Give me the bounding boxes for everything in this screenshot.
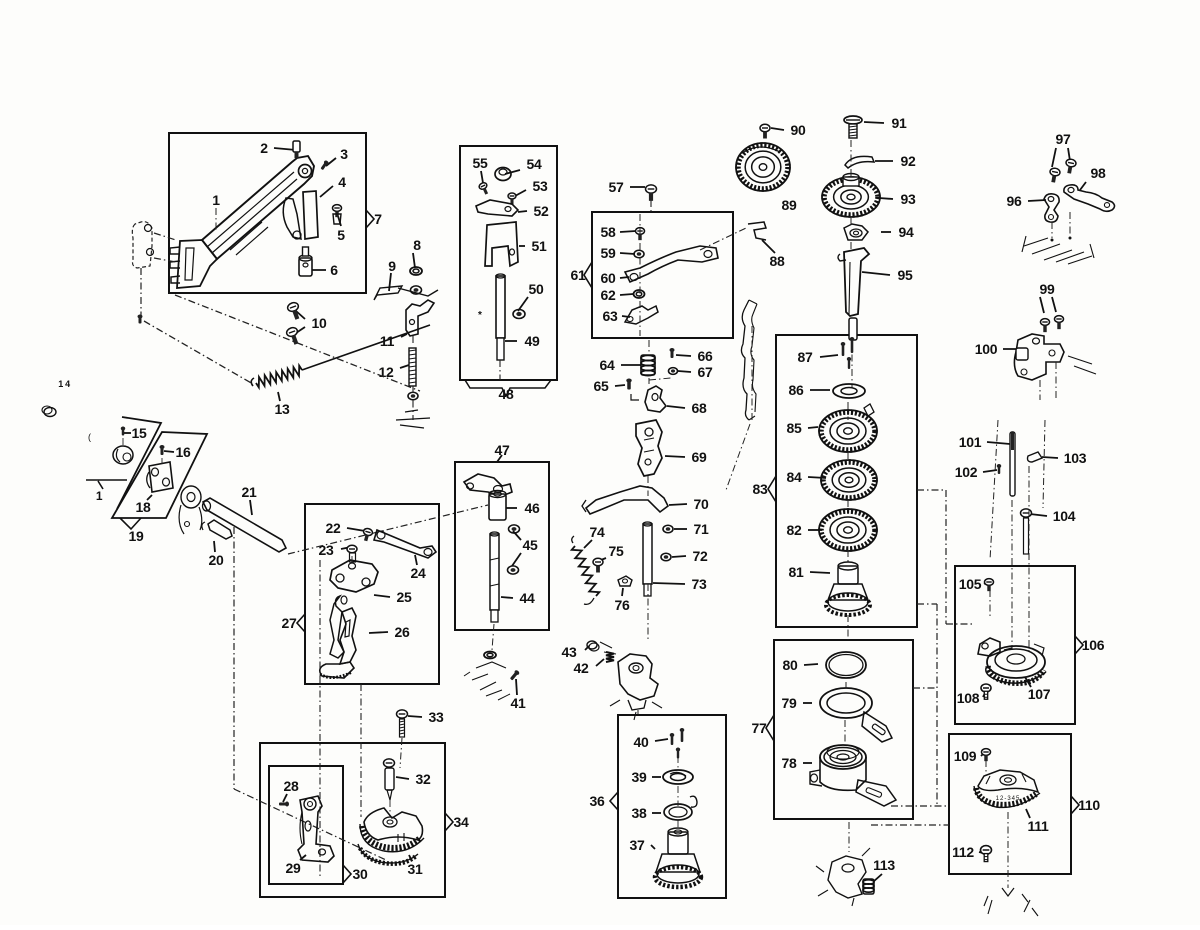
svg-text:4: 4 bbox=[338, 174, 346, 190]
svg-text:74: 74 bbox=[590, 524, 605, 540]
svg-text:*: * bbox=[478, 310, 482, 321]
svg-text:12-345: 12-345 bbox=[996, 796, 1021, 802]
svg-text:9: 9 bbox=[388, 258, 396, 274]
svg-text:94: 94 bbox=[899, 224, 914, 240]
svg-text:34: 34 bbox=[454, 814, 469, 830]
svg-text:105: 105 bbox=[959, 576, 982, 592]
svg-text:54: 54 bbox=[527, 156, 542, 172]
svg-text:60: 60 bbox=[601, 270, 616, 286]
svg-text:84: 84 bbox=[787, 469, 802, 485]
svg-text:86: 86 bbox=[789, 382, 804, 398]
svg-text:32: 32 bbox=[416, 771, 431, 787]
svg-text:77: 77 bbox=[752, 720, 767, 736]
svg-text:89: 89 bbox=[782, 197, 797, 213]
svg-text:51: 51 bbox=[532, 238, 547, 254]
svg-text:82: 82 bbox=[787, 522, 802, 538]
svg-text:59: 59 bbox=[601, 245, 616, 261]
svg-text:112: 112 bbox=[952, 844, 974, 860]
svg-text:50: 50 bbox=[529, 281, 544, 297]
svg-text:96: 96 bbox=[1007, 193, 1022, 209]
svg-text:43: 43 bbox=[562, 644, 577, 660]
svg-text:57: 57 bbox=[609, 179, 624, 195]
svg-text:44: 44 bbox=[520, 590, 535, 606]
svg-text:87: 87 bbox=[798, 349, 813, 365]
svg-text:(: ( bbox=[88, 432, 91, 442]
svg-text:75: 75 bbox=[609, 543, 624, 559]
svg-text:91: 91 bbox=[892, 115, 907, 131]
svg-text:10: 10 bbox=[312, 315, 327, 331]
svg-text:15: 15 bbox=[132, 425, 147, 441]
svg-text:95: 95 bbox=[898, 267, 913, 283]
svg-text:33: 33 bbox=[429, 709, 444, 725]
svg-text:11: 11 bbox=[380, 333, 395, 349]
svg-text:63: 63 bbox=[603, 308, 618, 324]
svg-text:1 4: 1 4 bbox=[58, 379, 70, 389]
svg-text:67: 67 bbox=[698, 364, 713, 380]
svg-text:104: 104 bbox=[1053, 508, 1076, 524]
svg-text:29: 29 bbox=[286, 860, 301, 876]
svg-text:69: 69 bbox=[692, 449, 707, 465]
svg-text:31: 31 bbox=[408, 861, 423, 877]
svg-text:62: 62 bbox=[601, 287, 616, 303]
svg-text:46: 46 bbox=[525, 500, 540, 516]
svg-text:37: 37 bbox=[630, 837, 645, 853]
svg-text:101: 101 bbox=[959, 434, 982, 450]
svg-text:8: 8 bbox=[413, 237, 421, 253]
svg-text:58: 58 bbox=[601, 224, 616, 240]
svg-text:79: 79 bbox=[782, 695, 797, 711]
svg-text:66: 66 bbox=[698, 348, 713, 364]
svg-text:78: 78 bbox=[782, 755, 797, 771]
svg-text:72: 72 bbox=[693, 548, 708, 564]
svg-text:16: 16 bbox=[176, 444, 191, 460]
svg-text:71: 71 bbox=[694, 521, 709, 537]
svg-text:18: 18 bbox=[136, 499, 151, 515]
svg-text:1: 1 bbox=[96, 489, 103, 503]
svg-text:109: 109 bbox=[954, 748, 977, 764]
svg-text:42: 42 bbox=[574, 660, 589, 676]
svg-text:108: 108 bbox=[957, 690, 980, 706]
svg-text:5: 5 bbox=[337, 227, 345, 243]
svg-text:3: 3 bbox=[340, 146, 348, 162]
svg-text:49: 49 bbox=[525, 333, 540, 349]
svg-text:12: 12 bbox=[379, 364, 394, 380]
svg-text:27: 27 bbox=[282, 615, 297, 631]
svg-text:100: 100 bbox=[975, 341, 998, 357]
svg-text:7: 7 bbox=[374, 211, 382, 227]
svg-text:20: 20 bbox=[209, 552, 224, 568]
svg-text:25: 25 bbox=[397, 589, 412, 605]
svg-text:2: 2 bbox=[260, 140, 268, 156]
svg-text:102: 102 bbox=[955, 464, 978, 480]
svg-text:73: 73 bbox=[692, 576, 707, 592]
svg-text:13: 13 bbox=[275, 401, 290, 417]
svg-text:98: 98 bbox=[1091, 165, 1106, 181]
svg-text:81: 81 bbox=[789, 564, 804, 580]
svg-text:21: 21 bbox=[242, 484, 257, 500]
svg-text:76: 76 bbox=[615, 597, 630, 613]
svg-text:64: 64 bbox=[600, 357, 615, 373]
svg-text:38: 38 bbox=[632, 805, 647, 821]
svg-text:1: 1 bbox=[212, 192, 220, 208]
svg-text:85: 85 bbox=[787, 420, 802, 436]
svg-text:92: 92 bbox=[901, 153, 916, 169]
svg-text:97: 97 bbox=[1056, 131, 1071, 147]
svg-text:106: 106 bbox=[1082, 637, 1105, 653]
svg-text:90: 90 bbox=[791, 122, 806, 138]
svg-text:28: 28 bbox=[284, 778, 299, 794]
svg-text:30: 30 bbox=[353, 866, 368, 882]
svg-text:45: 45 bbox=[523, 537, 538, 553]
svg-text:110: 110 bbox=[1078, 797, 1100, 813]
svg-text:83: 83 bbox=[753, 481, 768, 497]
svg-text:24: 24 bbox=[411, 565, 426, 581]
svg-text:113: 113 bbox=[873, 857, 895, 873]
svg-text:99: 99 bbox=[1040, 281, 1055, 297]
svg-text:22: 22 bbox=[326, 520, 341, 536]
svg-text:39: 39 bbox=[632, 769, 647, 785]
svg-text:55: 55 bbox=[473, 155, 488, 171]
svg-text:41: 41 bbox=[511, 695, 526, 711]
svg-text:52: 52 bbox=[534, 203, 549, 219]
svg-text:53: 53 bbox=[533, 178, 548, 194]
svg-text:93: 93 bbox=[901, 191, 916, 207]
svg-text:68: 68 bbox=[692, 400, 707, 416]
svg-text:65: 65 bbox=[594, 378, 609, 394]
svg-text:107: 107 bbox=[1028, 686, 1051, 702]
svg-text:26: 26 bbox=[395, 624, 410, 640]
svg-text:36: 36 bbox=[590, 793, 605, 809]
svg-text:70: 70 bbox=[694, 496, 709, 512]
svg-text:103: 103 bbox=[1064, 450, 1087, 466]
svg-text:111: 111 bbox=[1028, 818, 1049, 834]
svg-text:19: 19 bbox=[129, 528, 144, 544]
svg-text:88: 88 bbox=[770, 253, 785, 269]
svg-text:6: 6 bbox=[330, 262, 338, 278]
svg-text:80: 80 bbox=[783, 657, 798, 673]
svg-text:40: 40 bbox=[634, 734, 649, 750]
